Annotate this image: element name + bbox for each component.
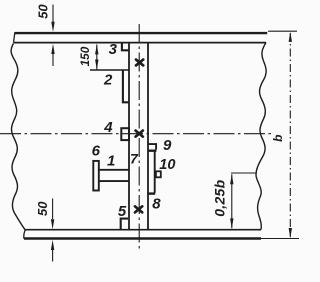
dimension 50 top: lower leader bbox=[52, 50, 54, 66]
dimension 0.25b: upper arrow bbox=[230, 174, 233, 184]
svg-text:7: 7 bbox=[130, 151, 139, 167]
weld tab 4 bbox=[121, 128, 129, 140]
svg-text:4: 4 bbox=[103, 119, 113, 136]
svg-text:9: 9 bbox=[163, 137, 172, 154]
top flange upper line bbox=[15, 32, 267, 34]
vertical centerline bbox=[138, 24, 140, 249]
weld tab 9 top and right edges bbox=[148, 144, 156, 150]
svg-text:150: 150 bbox=[78, 46, 92, 66]
splice strip 8 bottom edge bbox=[147, 192, 155, 194]
left web seam line bbox=[128, 44, 130, 230]
dimension 0.25b: lower arrow bbox=[230, 218, 233, 228]
weld tab 9 bottom edge bbox=[148, 149, 156, 151]
dimension 0.25b: extension line bbox=[231, 172, 256, 174]
top flange left end cap bbox=[14, 32, 15, 42]
dimension 50 bottom: upper leader bbox=[52, 199, 54, 220]
dimension b: line bbox=[289, 33, 291, 237]
dimension b: bottom arrow bbox=[289, 228, 292, 238]
splice plate 2 bbox=[123, 70, 129, 102]
dimension 50 bottom: lower arrow bbox=[51, 240, 54, 250]
dimension 150: upper arrow bbox=[95, 44, 98, 54]
horizontal centerline bbox=[0, 133, 271, 135]
bottom flange left end cap bbox=[24, 230, 26, 239]
tack weld cross top bbox=[136, 60, 143, 66]
dimension 50 top: upper leader bbox=[52, 5, 54, 23]
bottom flange upper line bbox=[25, 229, 261, 231]
stiffener web 1 upper line bbox=[99, 169, 129, 171]
svg-text:50: 50 bbox=[36, 4, 51, 19]
bottom flange lower extension to b dimension bbox=[261, 238, 299, 240]
dimension 150: extension line bbox=[90, 69, 129, 71]
weld tab 3 bbox=[122, 44, 129, 51]
stiffener flange 6 bbox=[93, 161, 99, 191]
weld tab 5 bbox=[121, 219, 128, 230]
right web seam line bbox=[147, 44, 149, 230]
dimension 50 bottom: upper arrow bbox=[51, 219, 54, 229]
svg-text:b: b bbox=[271, 135, 285, 142]
dimension b: top arrow bbox=[289, 32, 292, 42]
dimension 50 top: lower arrow bbox=[51, 44, 54, 54]
right wavy break line bbox=[256, 43, 266, 230]
tack weld cross middle bbox=[136, 131, 143, 137]
svg-text:10: 10 bbox=[159, 157, 175, 173]
svg-text:8: 8 bbox=[152, 196, 161, 213]
dimension 50 top: upper arrow bbox=[51, 22, 54, 32]
svg-text:5: 5 bbox=[118, 203, 127, 220]
bottom flange lower thick line bbox=[24, 237, 261, 240]
splice strip 8 right edge bbox=[154, 152, 156, 193]
stiffener web 1 lower line bbox=[99, 180, 129, 182]
svg-text:6: 6 bbox=[92, 143, 101, 160]
dimension 150: line bbox=[96, 45, 98, 70]
top flange lower line bbox=[14, 42, 267, 44]
dimension b: top extension line bbox=[268, 30, 297, 32]
svg-text:3: 3 bbox=[109, 41, 118, 58]
tack weld cross bottom bbox=[135, 206, 142, 212]
dimension 50 bottom: lower leader bbox=[52, 245, 54, 262]
svg-text:1: 1 bbox=[107, 153, 115, 170]
dimension 0.25b: line bbox=[231, 174, 233, 228]
weld tab 10 bbox=[156, 171, 161, 177]
svg-text:50: 50 bbox=[35, 201, 50, 216]
svg-text:0,25b: 0,25b bbox=[212, 179, 228, 216]
svg-text:2: 2 bbox=[103, 72, 113, 89]
left wavy break line bbox=[11, 44, 25, 230]
dimension 150: lower arrow bbox=[95, 60, 98, 70]
